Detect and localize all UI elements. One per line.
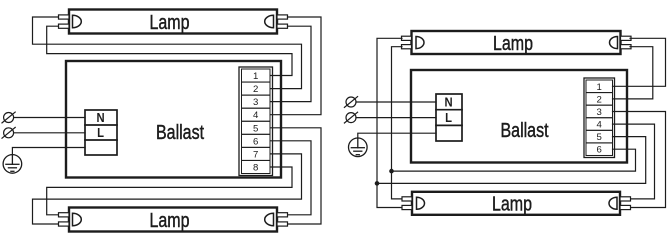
wire: phase P1 to terminal N xyxy=(14,117,85,119)
svg-text:L: L xyxy=(97,125,104,140)
svg-text:N: N xyxy=(96,110,104,125)
lamp LP4 left filament electrode xyxy=(417,197,425,209)
svg-text:1: 1 xyxy=(597,82,602,93)
wire: terminal 6 to node A (shunt net) xyxy=(392,149,636,171)
wire: terminal 1 to lamp LP1 lower-left pin xyxy=(47,26,292,75)
output terminal strip TB1 cells 1-8 (left diagram) xyxy=(239,67,273,176)
lamp LP2 pin 1 (upper left) xyxy=(59,213,70,217)
svg-text:3: 3 xyxy=(597,107,602,118)
svg-text:5: 5 xyxy=(597,132,602,143)
svg-text:1: 1 xyxy=(253,71,258,82)
svg-text:Lamp: Lamp xyxy=(493,32,533,54)
lamp LP1 pin 1 (upper left) xyxy=(59,15,70,19)
lamp LP2 (bottom lamp, left diagram) xyxy=(69,208,277,232)
lamp LP3 pin 3 (upper right) xyxy=(621,36,632,40)
lamp LP3 pin 2 (lower left) xyxy=(402,45,412,49)
svg-text:4: 4 xyxy=(597,120,603,131)
output terminal strip TB2 cells 1-6 (right diagram) xyxy=(584,78,615,158)
lamp LP3 pin 4 (lower right) xyxy=(621,45,632,49)
lamp LP3 right filament electrode xyxy=(610,37,618,49)
wire: terminal 3 to lamp LP4 lower-right pin xyxy=(613,112,666,208)
svg-text:2: 2 xyxy=(597,94,602,105)
lamp LP2 pin 2 (lower left) xyxy=(59,222,70,226)
wire: terminal 8 to lamp LP2 upper-left pin xyxy=(47,167,292,215)
lamp LP1 pin 2 (lower left) xyxy=(59,24,70,28)
wire: terminal 6 to lamp LP2 upper-right pin xyxy=(271,141,312,215)
wire: terminal 5 to lamp LP2 lower-right pin xyxy=(271,128,322,224)
svg-text:Lamp: Lamp xyxy=(149,209,189,231)
lamp LP2 right filament electrode xyxy=(265,213,274,225)
lamp LP4 right filament electrode xyxy=(609,197,617,209)
wire: terminal 1 to lamp LP3 upper-right pin xyxy=(613,38,666,86)
lamp LP3 (top lamp, right diagram) xyxy=(412,31,621,54)
phase symbol P3 (right diagram, line in) xyxy=(344,97,357,108)
svg-text:N: N xyxy=(444,95,452,110)
lamp LP2 pin 3 (upper right) xyxy=(277,213,288,217)
lamp LP2 left filament electrode xyxy=(73,213,82,225)
lamp LP3 pin 1 (upper left) xyxy=(402,36,412,40)
svg-text:2: 2 xyxy=(253,84,258,95)
ballast B2 (right diagram) xyxy=(411,70,627,163)
wire: terminal 2 to lamp LP1 upper-left pin xyxy=(33,17,302,89)
wire: terminal 4 to lamp LP1 upper-right pin xyxy=(271,17,322,115)
wire: lamp LP3 lower-left pin to lamp LP4 upper-left pin (net A) xyxy=(392,47,403,199)
svg-text:6: 6 xyxy=(597,145,602,156)
wire: ground GND1 to terminal block bottom cell xyxy=(12,148,85,155)
svg-text:5: 5 xyxy=(253,123,258,134)
node A junction dot xyxy=(389,169,394,174)
phase symbol P1 (left diagram, line in) xyxy=(2,112,15,123)
ballast B1 (left diagram) xyxy=(66,61,281,178)
ground symbol GND2 (right diagram) xyxy=(349,138,368,157)
wire: phase P2 to terminal L xyxy=(14,132,85,134)
phase symbol P2 (left diagram, line in) xyxy=(2,127,15,138)
wire: ground GND2 to terminal block bottom cell xyxy=(358,133,436,138)
lamp LP1 left filament electrode xyxy=(73,15,82,27)
wire: terminal 4 to lamp LP4 upper-right pin xyxy=(613,124,655,199)
svg-text:7: 7 xyxy=(253,149,258,160)
lamp LP1 (top lamp, left diagram) xyxy=(69,10,277,34)
svg-text:Lamp: Lamp xyxy=(149,11,189,33)
lamp LP4 pin 3 (upper right) xyxy=(620,197,631,201)
input terminal block N/L (right diagram) xyxy=(436,94,462,141)
svg-text:Ballast: Ballast xyxy=(156,121,204,143)
wire: terminal 3 to lamp LP1 lower-right pin xyxy=(271,26,312,101)
lamp LP3 left filament electrode xyxy=(416,37,424,49)
lamp LP1 right filament electrode xyxy=(265,15,274,27)
lamp LP2 pin 4 (lower right) xyxy=(277,222,288,226)
svg-text:8: 8 xyxy=(253,163,258,174)
wire: lamp LP3 upper-left pin to lamp LP4 lower-left pin (net B) xyxy=(377,38,403,207)
phase symbol P4 (right diagram, line in) xyxy=(344,112,357,123)
wire: terminal 7 to lamp LP2 lower-left pin xyxy=(33,154,302,224)
input terminal block N/L (left diagram) xyxy=(85,110,117,155)
lamp LP1 pin 4 (lower right) xyxy=(277,24,288,28)
lamp LP4 pin 1 (upper left) xyxy=(402,197,412,201)
wire: phase P4 to terminal L xyxy=(356,117,436,119)
ground symbol GND1 (left diagram) xyxy=(3,155,22,174)
svg-text:3: 3 xyxy=(253,97,258,108)
lamp LP1 pin 3 (upper right) xyxy=(277,15,288,19)
node B junction dot xyxy=(375,181,380,186)
lamp LP4 pin 2 (lower left) xyxy=(402,205,412,209)
wire: terminal 2 to lamp LP3 lower-right pin xyxy=(613,47,653,99)
svg-text:Ballast: Ballast xyxy=(500,119,548,141)
svg-text:Lamp: Lamp xyxy=(492,193,532,215)
svg-text:4: 4 xyxy=(253,110,259,121)
wire: terminal 5 to node B (shunt net) xyxy=(377,137,646,184)
svg-text:6: 6 xyxy=(253,136,258,147)
lamp LP4 pin 4 (lower right) xyxy=(620,205,631,209)
lamp LP4 (bottom lamp, right diagram) xyxy=(412,192,620,215)
svg-text:L: L xyxy=(445,110,452,125)
wire: phase P3 to terminal N xyxy=(356,101,436,103)
